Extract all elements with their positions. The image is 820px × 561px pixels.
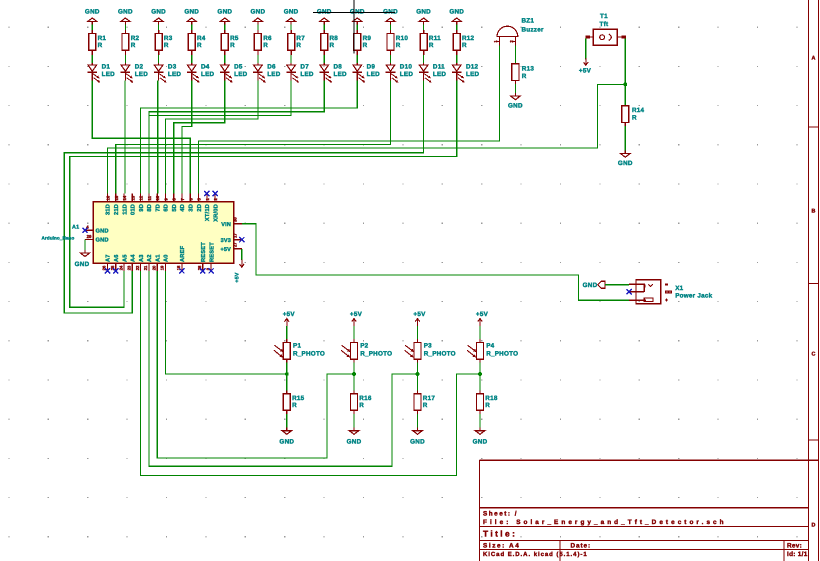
svg-text:15: 15 [114, 195, 119, 200]
pin D1/TX (pin 1) of A1 [204, 194, 211, 222]
photoresistor P1 R_PHOTO [274, 339, 325, 363]
svg-text:R: R [462, 42, 467, 49]
LED D9 [353, 63, 381, 82]
wire GND to R7 [290, 25, 292, 30]
cursor crosshair [313, 0, 395, 54]
svg-text:14: 14 [122, 195, 127, 200]
svg-text:GND: GND [583, 282, 598, 289]
wire R17 to GND [417, 414, 419, 428]
wire net P2 to A1 [157, 271, 354, 458]
svg-text:29: 29 [87, 234, 92, 239]
power GND flag column 11 [416, 8, 431, 24]
svg-text:20: 20 [151, 265, 156, 270]
svg-text:LED: LED [367, 71, 381, 78]
svg-text:+5V: +5V [413, 311, 426, 318]
svg-text:D8: D8 [334, 63, 343, 70]
resistor R5 [221, 30, 239, 55]
pin D0/RX (pin 2) of A1 [212, 194, 219, 222]
wire P2 to junction [353, 363, 355, 375]
svg-text:10: 10 [155, 195, 160, 200]
no-connect X on jack pin2 [627, 289, 632, 294]
LED D2 [121, 63, 149, 82]
pin D8 (pin 11) of A1 [147, 194, 153, 212]
svg-text:D: D [812, 523, 816, 529]
svg-text:R13: R13 [522, 65, 535, 72]
svg-text:GND: GND [618, 160, 633, 167]
wire GND to R8 [323, 25, 325, 30]
svg-text:+5V: +5V [220, 247, 231, 253]
pin D5 (pin 8) of A1 [172, 194, 178, 212]
wire junction to R16 [353, 374, 355, 390]
wire GND to R2 [124, 25, 126, 30]
svg-text:3V3: 3V3 [221, 238, 231, 244]
wire R14 to GND [624, 126, 626, 151]
svg-text:Id: 1/1: Id: 1/1 [787, 551, 808, 558]
svg-text:R: R [197, 42, 202, 49]
svg-text:R_PHOTO: R_PHOTO [360, 350, 392, 357]
resistor R18 [477, 390, 498, 414]
pin A0 (pin 19) of A1 [160, 254, 170, 271]
svg-text:D1: D1 [102, 63, 111, 70]
svg-text:A7: A7 [106, 254, 112, 262]
svg-text:X1: X1 [675, 285, 683, 292]
LED D7 [286, 63, 314, 82]
pin AREF of A1 [176, 245, 186, 271]
power +5V at T1 [579, 58, 592, 75]
svg-text:C: C [812, 352, 816, 358]
pin D2 (pin 5) of A1 [197, 194, 203, 212]
resistor R1 [89, 30, 107, 55]
svg-text:R: R [522, 73, 527, 80]
svg-text:GND: GND [410, 439, 425, 446]
svg-text:GND: GND [251, 8, 266, 15]
svg-text:BZ1: BZ1 [522, 18, 535, 25]
power GND flag column 1 [85, 8, 100, 24]
LED D11 [419, 63, 447, 82]
svg-text:A6: A6 [114, 254, 120, 262]
resistor R7 [288, 30, 306, 55]
power GND flag column 9 [350, 8, 365, 24]
svg-text:Sheet: /: Sheet: / [483, 510, 518, 517]
svg-text:GND: GND [383, 8, 398, 15]
pin D4 (pin 7) of A1 [180, 194, 186, 212]
wire GND to R3 [158, 25, 160, 30]
svg-text:R_PHOTO: R_PHOTO [424, 350, 456, 357]
no-connect X on A7 [105, 268, 110, 273]
wire junction to R15 [286, 374, 288, 390]
wire GND pin to ground [84, 240, 86, 250]
svg-text:D3: D3 [168, 63, 177, 70]
svg-text:GND: GND [96, 229, 109, 235]
resistor R15 [283, 390, 304, 414]
svg-text:24: 24 [118, 265, 123, 270]
svg-text:P3: P3 [424, 343, 432, 350]
pin A6 (pin 25) of A1 [110, 254, 120, 271]
svg-text:R: R [330, 42, 335, 49]
wire GND label to jack pin1 [605, 284, 629, 286]
svg-text:7D: 7D [155, 204, 161, 212]
svg-text:6D: 6D [164, 204, 170, 212]
resistor R2 [122, 30, 140, 55]
pin D12 (pin 15) of A1 [114, 194, 120, 216]
svg-text:30: 30 [233, 217, 238, 222]
wire R11 to D11 [423, 55, 425, 63]
wire R4 to D4 [191, 55, 193, 63]
wire R9 to D9 [356, 55, 358, 63]
ground below R15 [279, 428, 294, 446]
pin GND (29) of A1 [85, 234, 109, 244]
power GND flag column 2 [118, 8, 133, 24]
svg-text:19: 19 [160, 265, 165, 270]
power +5V below A1 [235, 260, 245, 283]
svg-text:GND: GND [85, 8, 100, 15]
svg-text:GND: GND [347, 439, 362, 446]
wire GND to R5 [224, 25, 226, 30]
LED D8 [319, 63, 347, 82]
svg-text:R: R [363, 42, 368, 49]
pin D10 (pin 13) of A1 [130, 194, 136, 216]
svg-text:3D: 3D [189, 204, 195, 212]
wire net LED12 to A5 pin (left detour) [70, 81, 457, 308]
op-amp U1 Arduino Nano A1 body [42, 202, 234, 264]
svg-text:12: 12 [139, 195, 144, 200]
svg-text:GND: GND [350, 8, 365, 15]
svg-text:P4: P4 [486, 343, 494, 350]
svg-text:XT/1D: XT/1D [204, 204, 211, 221]
svg-text:D12: D12 [466, 63, 479, 70]
svg-text:27: 27 [233, 242, 238, 247]
svg-text:21: 21 [143, 265, 148, 270]
svg-text:LED: LED [234, 71, 248, 78]
wire buzzer to R13 [514, 45, 516, 63]
svg-text:01D: 01D [131, 204, 137, 215]
pin GND (4) of A1 [85, 225, 109, 235]
wire R12 to D12 [456, 55, 458, 63]
svg-text:22: 22 [135, 265, 140, 270]
svg-text:23: 23 [127, 265, 132, 270]
svg-text:GND: GND [284, 8, 299, 15]
resistor R11 [420, 30, 441, 55]
svg-text:LED: LED [267, 71, 281, 78]
wire junction to R18 [479, 374, 481, 390]
wire GND to R10 [390, 25, 392, 30]
wire R18 to GND [479, 414, 481, 428]
svg-text:A3: A3 [139, 254, 145, 262]
ground below R16 [347, 428, 362, 446]
wire GND to R11 [423, 25, 425, 30]
pin VIN (30) of A1 [221, 217, 242, 228]
power GND flag column 10 [383, 8, 398, 24]
svg-text:XR/0D: XR/0D [212, 204, 219, 222]
LED D10 [386, 63, 414, 82]
svg-text:A1: A1 [155, 254, 161, 262]
svg-text:A5: A5 [122, 254, 128, 262]
resistor R8 [321, 30, 339, 55]
svg-text:31D: 31D [106, 204, 112, 215]
svg-text:GND: GND [96, 238, 109, 244]
svg-text:R: R [164, 42, 169, 49]
no-connect X on D0/RX [213, 191, 218, 196]
wire P1 to junction [286, 363, 288, 375]
wire net LED1 to D3 pin [92, 81, 190, 194]
wire +5V to P1 [286, 326, 288, 339]
pin A5 (pin 24) of A1 [118, 254, 128, 271]
LED D1 [88, 63, 116, 82]
no-connect X on RESET 3 [209, 268, 214, 273]
svg-text:LED: LED [201, 71, 215, 78]
svg-text:R: R [230, 42, 235, 49]
svg-text:+5V: +5V [579, 68, 592, 75]
svg-text:Buzzer: Buzzer [522, 27, 544, 34]
pin RESET (3) of A1 [205, 242, 215, 271]
svg-text:R_PHOTO: R_PHOTO [486, 350, 518, 357]
pin A1 (pin 20) of A1 [151, 254, 161, 271]
wire R8 to D8 [323, 55, 325, 63]
svg-text:A: A [812, 56, 816, 62]
svg-text:Rev:: Rev: [787, 542, 802, 549]
svg-text:P1: P1 [293, 343, 301, 350]
buzzer BZ1 [493, 18, 544, 46]
svg-text:16: 16 [106, 195, 111, 200]
LED D4 [187, 63, 215, 82]
ground below R14 [618, 151, 633, 167]
svg-text:R: R [263, 42, 268, 49]
ground below A1 [75, 250, 90, 268]
wire net LED8 to D8 pin [149, 81, 324, 194]
pin D13 (pin 16) of A1 [106, 194, 112, 216]
wire net buzzer to D2 pin [199, 45, 500, 193]
wire R6 to D6 [257, 55, 259, 63]
LED D3 [154, 63, 182, 82]
no-connect X on D1/TX [204, 191, 209, 196]
svg-text:LED: LED [102, 71, 116, 78]
svg-text:D4: D4 [201, 63, 210, 70]
wire T1 pin2 down [624, 39, 626, 85]
svg-text:P2: P2 [360, 343, 368, 350]
resistor R4 [188, 30, 206, 55]
svg-text:5D: 5D [172, 204, 178, 212]
wire +5V pin down [241, 249, 243, 260]
svg-text:+5V: +5V [235, 272, 241, 282]
svg-text:R: R [485, 402, 490, 409]
svg-text:GND: GND [449, 8, 464, 15]
svg-text:A1: A1 [72, 225, 79, 231]
wire +5V to P4 [479, 326, 481, 339]
wire net P4 to A3 [141, 271, 480, 476]
resistor R12 [453, 30, 474, 55]
ground below R13 [508, 93, 523, 109]
connector X1 Power Jack [629, 280, 713, 304]
power GND flag column 6 [251, 8, 266, 24]
wire R16 to GND [353, 414, 355, 428]
svg-text:D7: D7 [300, 63, 309, 70]
power +5V at P4 [476, 311, 489, 326]
svg-text:Title:: Title: [483, 528, 517, 538]
wire GND to R4 [191, 25, 193, 30]
svg-text:LED: LED [334, 71, 348, 78]
sheet frame right border [809, 0, 819, 561]
junction node P3 [416, 372, 420, 376]
resistor R6 [254, 30, 272, 55]
power GND flag column 12 [449, 8, 464, 24]
wire net LED6 to D6 pin [166, 81, 258, 194]
svg-text:R: R [632, 114, 637, 121]
svg-text:LED: LED [300, 71, 314, 78]
resistor R3 [155, 30, 173, 55]
svg-text:LED: LED [135, 71, 149, 78]
svg-text:2D: 2D [197, 204, 203, 212]
svg-text:File: Solar_Energy_and_Tft_Det: File: Solar_Energy_and_Tft_Detector.sch [483, 519, 727, 526]
svg-text:A0: A0 [164, 254, 170, 262]
svg-text:VIN: VIN [221, 222, 231, 228]
wire net LED5 to D5 pin [174, 81, 225, 194]
wire GND to R12 [456, 25, 458, 30]
LED D12 [452, 63, 480, 82]
svg-text:B: B [812, 209, 816, 215]
resistor R10 [387, 30, 408, 55]
wire junction to R14 [624, 84, 626, 105]
svg-text:13: 13 [130, 195, 135, 200]
pin A4 (pin 23) of A1 [127, 254, 137, 271]
svg-text:GND: GND [217, 8, 232, 15]
svg-text:R: R [359, 402, 364, 409]
pin A3 (pin 22) of A1 [135, 254, 145, 271]
svg-text:R: R [396, 42, 401, 49]
no-connect X on 3V3 [239, 237, 244, 242]
svg-text:A2: A2 [147, 254, 153, 262]
resistor R13 [512, 64, 534, 84]
wire R5 to D5 [224, 55, 226, 63]
svg-text:R_PHOTO: R_PHOTO [293, 350, 325, 357]
wire R3 to D3 [158, 55, 160, 63]
svg-text:R14: R14 [632, 107, 645, 114]
wire net LED9 to D9 pin [141, 81, 358, 194]
svg-text:Size: A4: Size: A4 [483, 542, 520, 549]
svg-text:LED: LED [466, 71, 480, 78]
svg-text:GND: GND [118, 8, 133, 15]
svg-text:A4: A4 [131, 254, 137, 262]
svg-text:D5: D5 [234, 63, 243, 70]
pin A7 (pin 26) of A1 [102, 254, 112, 271]
junction node P1 [285, 372, 289, 376]
wire net T1 signal to D13 pin [108, 84, 626, 193]
power GND flag column 7 [284, 8, 299, 24]
wire net P1 to A0 [165, 271, 286, 374]
svg-text:21D: 21D [114, 204, 120, 215]
svg-text:+5V: +5V [350, 311, 363, 318]
wire GND to R1 [91, 25, 93, 30]
svg-text:LED: LED [400, 71, 414, 78]
wire R1 to D1 [91, 55, 93, 63]
svg-text:8D: 8D [147, 204, 153, 212]
power +5V at P3 [413, 311, 426, 326]
pin D3 (pin 6) of A1 [188, 194, 194, 212]
resistor R17 [414, 390, 435, 414]
svg-text:+5V: +5V [476, 311, 489, 318]
wire net P3 to A2 [149, 271, 418, 466]
wire GND to R9 [356, 25, 358, 30]
wire R15 to GND [286, 414, 288, 428]
svg-text:R: R [429, 42, 434, 49]
power GND flag column 8 [317, 8, 332, 24]
title block [479, 460, 818, 561]
svg-text:4D: 4D [180, 204, 186, 212]
no-connect X on A6 [113, 268, 118, 273]
svg-text:Arduino_Nano: Arduino_Nano [42, 235, 75, 240]
svg-text:R: R [98, 42, 103, 49]
svg-text:R: R [423, 402, 428, 409]
junction node P4 [478, 372, 482, 376]
power GND flag column 3 [151, 8, 166, 24]
svg-text:GND: GND [473, 439, 488, 446]
svg-text:11: 11 [147, 195, 152, 200]
svg-text:AREF: AREF [180, 245, 186, 262]
svg-text:Power Jack: Power Jack [675, 293, 712, 300]
wire R7 to D7 [290, 55, 292, 63]
wire junction to R17 [417, 374, 419, 390]
wire net LED7 to D8 pin [149, 81, 291, 194]
pin D11 (pin 14) of A1 [122, 194, 128, 215]
junction T1/R14 node [623, 83, 627, 87]
svg-text:D10: D10 [400, 63, 413, 70]
pin +5V (27) of A1 [220, 242, 241, 253]
svg-text:GND: GND [508, 102, 523, 109]
wire net LED4 to D4 pin [182, 81, 192, 194]
wire +5V to P2 [353, 326, 355, 339]
wire GND to R6 [257, 25, 259, 30]
svg-text:KiCad E.D.A. kicad (5.1.4)-1: KiCad E.D.A. kicad (5.1.4)-1 [483, 551, 588, 558]
svg-text:Date:: Date: [571, 542, 591, 549]
power +5V at P1 [283, 311, 296, 326]
svg-text:R: R [296, 42, 301, 49]
power GND flag column 4 [184, 8, 199, 24]
svg-text:R: R [131, 42, 136, 49]
pin D6 (pin 9) of A1 [164, 194, 170, 212]
svg-text:LED: LED [168, 71, 182, 78]
no-connect X on AREF [179, 268, 184, 273]
LED D6 [253, 63, 281, 82]
svg-text:GND: GND [279, 439, 294, 446]
resistor R16 [351, 390, 372, 414]
photoresistor P4 R_PHOTO [467, 339, 518, 363]
wire net LED11 to A4 pin (left detour) [64, 81, 423, 314]
wire P4 to junction [479, 363, 481, 375]
wire R10 to D10 [390, 55, 392, 63]
global label GND at power jack [583, 281, 605, 289]
no-connect X on RESET 28 [200, 268, 205, 273]
pin 3V3 (17) of A1 [221, 233, 242, 244]
pin D9 (pin 12) of A1 [139, 194, 145, 212]
resistor R9 [354, 30, 372, 55]
wire net LED3 to D7 pin [157, 81, 159, 194]
svg-text:D2: D2 [135, 63, 144, 70]
svg-text:Tft: Tft [600, 21, 609, 28]
svg-text:R: R [292, 402, 297, 409]
wire R2 to D2 [124, 55, 126, 63]
svg-text:T1: T1 [600, 13, 608, 20]
ground below R18 [473, 428, 488, 446]
wire T1 pin1 to +5V [585, 39, 587, 60]
svg-text:D9: D9 [367, 63, 376, 70]
wire P3 to junction [417, 363, 419, 375]
svg-text:11D: 11D [122, 204, 128, 215]
pin RESET (28) of A1 [197, 242, 207, 271]
photoresistor P3 R_PHOTO [405, 339, 456, 363]
svg-text:GND: GND [184, 8, 199, 15]
junction node P2 [352, 372, 356, 376]
svg-text:RESET: RESET [209, 242, 215, 262]
LED D5 [220, 63, 248, 82]
